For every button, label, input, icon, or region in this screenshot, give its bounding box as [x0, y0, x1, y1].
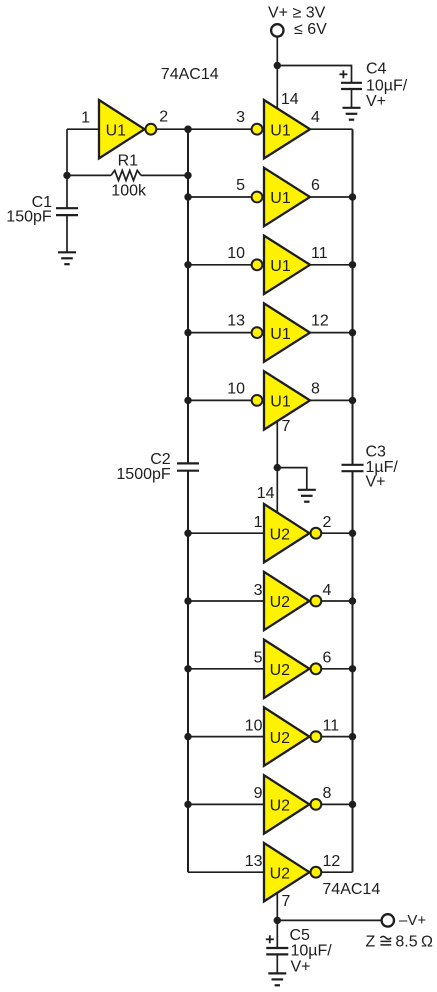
- wire output to right bus: [322, 532, 353, 534]
- svg-text:10: 10: [227, 380, 245, 397]
- svg-text:V+ ≥ 3V: V+ ≥ 3V: [268, 5, 326, 22]
- svg-text:Ω: Ω: [421, 933, 433, 950]
- junction left bus: [184, 261, 191, 268]
- junction left bus: [184, 530, 191, 537]
- svg-text:U2: U2: [270, 526, 291, 543]
- svg-text:6: 6: [311, 177, 320, 194]
- junction right bus: [349, 329, 356, 336]
- wire output to right bus: [322, 736, 353, 738]
- svg-text:100k: 100k: [111, 183, 147, 200]
- junction pin7/ground/pin14 node: [274, 464, 281, 471]
- wire input pin 1: [67, 128, 99, 130]
- wire output pin 2 to left bus: [157, 128, 189, 130]
- svg-text:8.5: 8.5: [395, 933, 417, 950]
- junction right bus: [349, 193, 356, 200]
- polarity + of C4: [339, 70, 347, 78]
- inverter U2 row 6 (pins 13-12): [264, 843, 321, 901]
- svg-text:U1: U1: [106, 122, 127, 139]
- inverter U2 row 2 (pins 3-4): [264, 572, 321, 630]
- wire output to right bus: [322, 668, 353, 670]
- wire node down to pin 14 of U2: [276, 468, 278, 513]
- wire input from left bus: [188, 736, 264, 738]
- junction right bus: [349, 261, 356, 268]
- svg-text:12: 12: [311, 313, 329, 330]
- junction right bus: [349, 665, 356, 672]
- capacitor C1: [56, 208, 78, 215]
- inverter U2 row 5 (pins 9-8): [264, 775, 321, 833]
- svg-text:≤ 6V: ≤ 6V: [294, 21, 327, 38]
- wire output to right bus: [322, 871, 353, 873]
- junction right bus: [349, 733, 356, 740]
- ground (C4): [343, 108, 361, 120]
- svg-text:U2: U2: [270, 594, 291, 611]
- svg-text:4: 4: [323, 582, 332, 599]
- label C3 value: [366, 443, 399, 490]
- inverter U2 row 1 (pins 1-2): [264, 504, 321, 562]
- junction right bus: [349, 530, 356, 537]
- capacitor C2: [177, 463, 199, 470]
- wire pin 7 of U2 down: [276, 893, 278, 921]
- svg-text:14: 14: [281, 91, 299, 108]
- wire supply terminal to pin 14 of U1: [276, 37, 278, 109]
- wire input from left bus: [188, 332, 252, 334]
- wire C5 to ground: [276, 954, 278, 973]
- wire output to right bus: [310, 196, 353, 198]
- wire input from left bus: [188, 264, 252, 266]
- inverter U1 row 3 (pins 10-11): [252, 236, 310, 294]
- wire right bus lower: [352, 471, 354, 872]
- wire output node to C5: [276, 920, 278, 948]
- wire output to right bus: [310, 399, 353, 401]
- svg-text:9: 9: [254, 785, 263, 802]
- svg-text:13: 13: [245, 853, 263, 870]
- wire input from left bus: [188, 871, 264, 873]
- inverter U1 row 4 (pins 13-12): [252, 303, 310, 361]
- junction left bus: [184, 801, 191, 808]
- svg-text:U2: U2: [270, 730, 291, 747]
- svg-text:7: 7: [282, 893, 291, 910]
- node -V+ output terminal: [382, 914, 394, 926]
- svg-text:12: 12: [323, 853, 341, 870]
- junction R1 / C1: [63, 172, 70, 179]
- inverter U2 row 4 (pins 10-11): [264, 707, 321, 765]
- junction left bus: [184, 329, 191, 336]
- svg-text:U1: U1: [270, 326, 291, 343]
- svg-text:3: 3: [236, 109, 245, 126]
- svg-text:74AC14: 74AC14: [322, 881, 380, 898]
- junction left bus: [184, 665, 191, 672]
- wire V+ node to C4: [277, 66, 351, 83]
- wire output to right bus: [322, 803, 353, 805]
- wire output to right bus: [310, 128, 353, 130]
- wire input from left bus: [188, 803, 264, 805]
- junction left bus: [184, 126, 191, 133]
- wire left bus upper: [187, 129, 189, 464]
- junction left bus: [184, 733, 191, 740]
- wire C4 to ground: [351, 89, 353, 108]
- wire right bus upper: [352, 129, 354, 464]
- svg-text:1500pF: 1500pF: [116, 466, 170, 483]
- label Z = 8.5 ohm: [366, 933, 434, 950]
- wire input from left bus: [188, 532, 264, 534]
- wire to output terminal: [277, 919, 381, 921]
- svg-text:6: 6: [323, 650, 332, 667]
- svg-text:Z: Z: [366, 933, 376, 950]
- svg-text:R1: R1: [118, 153, 139, 170]
- label C4 value: [366, 61, 408, 111]
- polarity + of C5: [266, 935, 274, 943]
- svg-text:U1: U1: [270, 190, 291, 207]
- junction V+ node: [274, 62, 281, 69]
- svg-text:U2: U2: [270, 662, 291, 679]
- ground (mid): [298, 490, 316, 502]
- svg-text:11: 11: [323, 717, 340, 734]
- wire input from left bus: [188, 128, 252, 130]
- svg-text:U1: U1: [270, 258, 291, 275]
- svg-text:2: 2: [159, 109, 168, 126]
- svg-text:U2: U2: [270, 798, 291, 815]
- wire node to ground symbol: [277, 468, 307, 490]
- svg-text:2: 2: [323, 514, 332, 531]
- wire input from left bus: [188, 196, 252, 198]
- ground (C5): [268, 973, 286, 985]
- inverter U1 row 2 (pins 5-6): [252, 168, 310, 226]
- svg-text:4: 4: [311, 109, 320, 126]
- inverter U1 row 1 (pins 3-4): [252, 100, 310, 158]
- wire left bus lower: [187, 471, 189, 872]
- svg-text:5: 5: [236, 177, 245, 194]
- wire pin 7 of U1 down to ground node: [276, 421, 278, 468]
- wire input from left bus: [188, 399, 252, 401]
- op-amp U1 oscillator inverter (pins 1-2): [99, 100, 156, 158]
- resistor R1: [67, 170, 188, 180]
- svg-text:8: 8: [311, 380, 320, 397]
- svg-text:10: 10: [227, 245, 245, 262]
- svg-text:7: 7: [282, 418, 291, 435]
- wire output to right bus: [322, 600, 353, 602]
- svg-text:V+: V+: [366, 93, 386, 110]
- svg-text:U1: U1: [270, 394, 291, 411]
- svg-text:10µF/: 10µF/: [366, 77, 408, 94]
- junction left bus: [184, 597, 191, 604]
- svg-text:C4: C4: [366, 61, 387, 78]
- capacitor C5: [266, 948, 288, 954]
- wire input from left bus: [188, 668, 264, 670]
- svg-text:V+: V+: [291, 959, 311, 976]
- svg-text:V+: V+: [366, 474, 386, 491]
- wire input from left bus: [188, 600, 264, 602]
- svg-text:10µF/: 10µF/: [291, 942, 333, 959]
- svg-text:C3: C3: [366, 443, 387, 460]
- svg-text:13: 13: [227, 313, 245, 330]
- ground (C1): [58, 252, 76, 264]
- svg-text:1: 1: [254, 514, 263, 531]
- junction right bus: [349, 801, 356, 808]
- capacitor C3: [342, 465, 364, 471]
- svg-text:150pF: 150pF: [6, 208, 52, 225]
- junction left bus: [184, 397, 191, 404]
- junction R1 / left bus: [184, 172, 191, 179]
- svg-text:5: 5: [254, 650, 263, 667]
- svg-text:14: 14: [257, 485, 275, 502]
- svg-text:3: 3: [254, 582, 263, 599]
- svg-text:–V+: –V+: [399, 912, 426, 929]
- wire output to right bus: [310, 264, 353, 266]
- wire output to right bus: [310, 332, 353, 334]
- junction right bus: [349, 597, 356, 604]
- junction output node: [274, 917, 281, 924]
- inverter U2 row 3 (pins 5-6): [264, 640, 321, 698]
- svg-text:U2: U2: [270, 865, 291, 882]
- capacitor C4: [341, 83, 362, 89]
- svg-text:8: 8: [323, 785, 332, 802]
- wire feedback left vertical: [66, 129, 68, 208]
- junction left bus: [184, 193, 191, 200]
- wire C1 to ground: [66, 215, 68, 252]
- svg-text:U1: U1: [270, 122, 291, 139]
- junction right bus: [349, 397, 356, 404]
- svg-text:11: 11: [311, 245, 328, 262]
- inverter U1 row 5 (pins 10-8): [252, 371, 310, 429]
- svg-text:10: 10: [245, 717, 263, 734]
- svg-text:74AC14: 74AC14: [161, 66, 219, 83]
- svg-text:1: 1: [81, 109, 90, 126]
- label C5 value: [290, 927, 333, 976]
- junction pin2 / left bus: [184, 126, 191, 133]
- node V+ supply terminal: [271, 24, 283, 36]
